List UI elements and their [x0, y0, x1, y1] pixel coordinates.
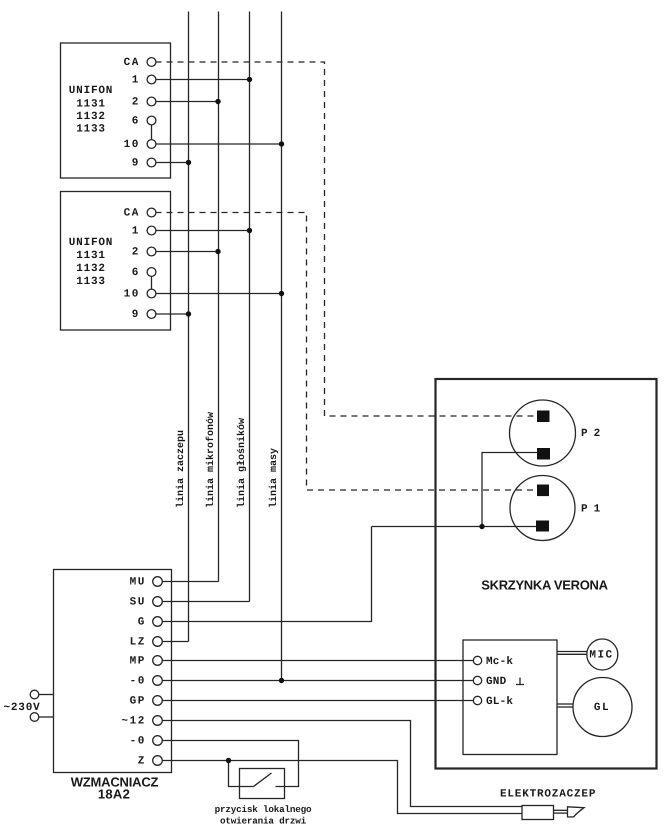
- amplifier box WZMACNIACZ 18A2: [54, 570, 172, 773]
- wire Z to electric strike: [162, 761, 522, 814]
- node P1 P2 common junction: [479, 524, 484, 529]
- wire GP to GL-k: [162, 700, 473, 702]
- svg-text:UNIFON: UNIFON: [69, 237, 113, 249]
- wire SU to speaker line: [162, 601, 250, 603]
- loudspeaker GL circle: [573, 678, 632, 737]
- svg-text:GND: GND: [486, 676, 507, 688]
- svg-text:linia zaczepu: linia zaczepu: [175, 430, 187, 508]
- speaker terminal square P2 top: [537, 411, 550, 423]
- electric strike double link: [554, 809, 568, 811]
- dashed wire CA U2 to P1: [156, 213, 538, 491]
- svg-text:GL: GL: [594, 702, 610, 714]
- node U1 pin2 junction: [215, 99, 220, 104]
- pin ~12: [153, 716, 163, 726]
- wire U1 pin2 to microphone line: [156, 101, 219, 103]
- double wire terminal box to MIC: [558, 651, 588, 653]
- pin LZ: [153, 637, 163, 647]
- svg-text:MP: MP: [130, 656, 146, 668]
- node mass line junction: [279, 678, 284, 683]
- wire G to P1 P2 common: [162, 527, 372, 622]
- wire U2 pin1 to speaker line: [156, 230, 250, 232]
- wire U1 pin10 to mass line: [156, 143, 282, 145]
- pin G: [153, 617, 163, 627]
- svg-text:9: 9: [132, 309, 140, 321]
- pin GND: [473, 676, 481, 684]
- wire U2 pin2 to microphone line: [156, 251, 219, 253]
- wire U2 pin10 to mass line: [156, 293, 282, 295]
- terminal box inside VERONA: [463, 640, 557, 755]
- wire -0 to button right contact: [162, 741, 299, 787]
- svg-text:6: 6: [132, 116, 140, 128]
- pin -0 a: [153, 676, 163, 686]
- svg-text:SKRZYNKA VERONA: SKRZYNKA VERONA: [481, 578, 608, 593]
- pin Z: [153, 756, 163, 766]
- pin circles: [30, 58, 481, 766]
- svg-text:~12: ~12: [121, 716, 146, 728]
- pin -0 b: [153, 736, 163, 746]
- pin U2 2: [147, 247, 156, 256]
- svg-text:CA: CA: [124, 57, 140, 69]
- svg-text:GP: GP: [130, 696, 146, 708]
- pin GP: [153, 696, 163, 706]
- electric strike latch wedge: [568, 807, 585, 817]
- pin U1 2: [147, 97, 156, 106]
- svg-text:10: 10: [124, 289, 140, 301]
- svg-text:9: 9: [132, 158, 140, 170]
- pin U2 9: [147, 310, 156, 319]
- svg-text:SU: SU: [130, 597, 146, 609]
- svg-text:Z: Z: [138, 756, 146, 768]
- speaker terminal square P1 bottom: [536, 521, 549, 532]
- svg-text:10: 10: [124, 139, 140, 151]
- wire U1 pin9 to latch line: [156, 162, 189, 164]
- svg-text:1133: 1133: [76, 124, 106, 136]
- double wire terminal box to GL: [558, 703, 574, 705]
- svg-text:1: 1: [132, 75, 140, 87]
- wire 230V top lead: [39, 694, 54, 696]
- svg-text:MIC: MIC: [589, 650, 613, 662]
- svg-text:18A2: 18A2: [98, 787, 130, 802]
- svg-text:1132: 1132: [76, 111, 106, 123]
- svg-text:LZ: LZ: [130, 637, 146, 649]
- pin MU: [153, 577, 163, 587]
- node U1 pin1 junction: [247, 77, 252, 82]
- pin U1 6: [147, 116, 156, 125]
- svg-text:G: G: [138, 617, 146, 629]
- wire 230V bottom lead: [39, 716, 54, 718]
- svg-text:ELEKTROZACZEP: ELEKTROZACZEP: [500, 789, 596, 801]
- wire MU to microphone line: [162, 581, 219, 583]
- wire U2 pin6-pin10 link: [151, 272, 153, 294]
- svg-text:1131: 1131: [76, 99, 106, 111]
- svg-text:2: 2: [132, 247, 140, 259]
- wire -0 to GND: [162, 680, 473, 682]
- svg-text:2: 2: [132, 97, 140, 109]
- speaker unit P2 circle: [510, 400, 576, 466]
- pin 230V bottom: [30, 713, 39, 722]
- speaker unit P1 circle: [510, 476, 575, 541]
- node U2 pin1 junction: [247, 228, 252, 233]
- speaker terminal square P1 top: [537, 485, 549, 497]
- node Z branch junction: [226, 758, 231, 763]
- unifon U1 box: [61, 43, 171, 178]
- svg-text:przycisk lokalnego: przycisk lokalnego: [215, 804, 312, 815]
- svg-text:1132: 1132: [76, 263, 106, 275]
- svg-text:linia masy: linia masy: [268, 448, 280, 508]
- node U2 pin9 junction: [186, 311, 191, 316]
- svg-text:~230V: ~230V: [4, 702, 41, 714]
- speaker terminal square P2 bottom: [537, 448, 550, 460]
- svg-text:UNIFON: UNIFON: [69, 85, 113, 97]
- node U1 pin10 junction: [279, 141, 284, 146]
- wire U1 pin6-pin10 link: [151, 121, 153, 145]
- pin U2 CA: [147, 208, 156, 217]
- node U1 pin9 junction: [186, 160, 191, 165]
- pin U2 6: [147, 268, 156, 277]
- skrzynka VERONA box: [436, 379, 657, 769]
- svg-text:MU: MU: [130, 577, 146, 589]
- wire LZ to latch line: [162, 641, 189, 643]
- svg-text:6: 6: [132, 267, 140, 279]
- svg-text:CA: CA: [124, 208, 140, 220]
- electric strike body: [522, 806, 554, 820]
- svg-text:GL-k: GL-k: [486, 696, 513, 708]
- wire linia mikrofonow vertical bus: [218, 12, 220, 582]
- svg-text:linia mikrofonów: linia mikrofonów: [205, 412, 217, 508]
- pin 230V top: [30, 690, 39, 699]
- wire U2 pin9 to latch line: [156, 313, 189, 315]
- node U2 pin10 junction: [279, 291, 284, 296]
- svg-text:P1: P1: [581, 504, 606, 516]
- wire ~12 to electric strike: [162, 721, 522, 807]
- pin U1 1: [147, 75, 156, 84]
- pin U1 10: [147, 140, 156, 149]
- pin MP: [153, 656, 163, 666]
- wire Z branch to button left contact: [229, 761, 254, 787]
- pin SU: [153, 597, 163, 607]
- svg-text:1: 1: [132, 226, 140, 238]
- wire linia masy vertical bus: [281, 12, 283, 681]
- ground symbol after GND: [516, 678, 524, 685]
- svg-text:1131: 1131: [76, 250, 106, 262]
- unifon U2 box: [61, 192, 171, 331]
- svg-text:linia głośników: linia głośników: [236, 418, 248, 508]
- wire linia glosnikow vertical bus: [249, 12, 251, 602]
- pin U2 1: [147, 226, 156, 235]
- svg-text:-0: -0: [130, 736, 146, 748]
- dashed wire CA U1 to P2: [156, 62, 538, 416]
- wire P2 bottom to junction to P1 bottom: [482, 453, 537, 527]
- button box przycisk: [240, 769, 285, 799]
- wire U1 pin1 to speaker line: [156, 79, 250, 81]
- svg-text:P2: P2: [581, 428, 606, 440]
- wire linia zaczepu vertical bus: [188, 12, 190, 642]
- svg-text:1133: 1133: [76, 276, 106, 288]
- pin Mc-k: [473, 656, 481, 664]
- wire junction to G riser: [372, 526, 483, 528]
- wire MP to Mc-k: [162, 660, 473, 662]
- svg-text:otwierania drzwi: otwierania drzwi: [220, 816, 307, 827]
- node U2 pin2 junction: [215, 249, 220, 254]
- pin GL-k: [473, 696, 481, 704]
- svg-text:Mc-k: Mc-k: [486, 656, 513, 668]
- switch blade of local button: [254, 773, 272, 787]
- svg-text:-0: -0: [130, 676, 146, 688]
- pin U1 CA: [147, 58, 156, 67]
- pin U1 9: [147, 158, 156, 167]
- pin U2 10: [147, 289, 156, 298]
- microphone MIC circle: [587, 639, 618, 670]
